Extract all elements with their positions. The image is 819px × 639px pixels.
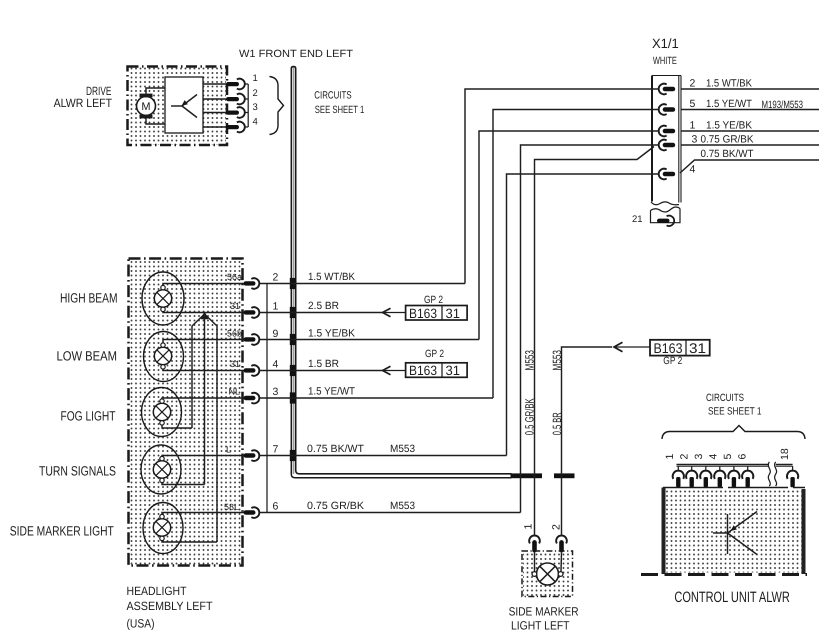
low beam bulb E2 — [154, 343, 171, 369]
svg-text:HIGH BEAM: HIGH BEAM — [60, 291, 118, 306]
high beam bulb E1 — [154, 285, 171, 311]
svg-text:2: 2 — [551, 524, 563, 530]
label pin 4 wire — [690, 148, 755, 176]
svg-text:1.5 YE/WT: 1.5 YE/WT — [706, 98, 753, 110]
headlight pin row 1 — [244, 307, 260, 318]
svg-text:1: 1 — [253, 73, 258, 84]
headlight pin row 9 — [244, 334, 260, 345]
control unit dotted box — [641, 488, 807, 575]
svg-text:1.5 YE/BK: 1.5 YE/BK — [706, 120, 752, 132]
svg-text:B163: B163 — [654, 340, 683, 356]
wire side marker top to pin 58L — [162, 513, 244, 515]
svg-text:4: 4 — [708, 454, 720, 460]
trunk junction tick row 9 — [290, 334, 297, 345]
svg-text:4: 4 — [253, 117, 258, 128]
svg-text:1.5 WT/BK: 1.5 WT/BK — [706, 78, 752, 90]
wire label row 7 — [307, 443, 415, 455]
trunk junction tick row 1 — [290, 307, 297, 318]
svg-text:3: 3 — [273, 386, 279, 398]
headlight connector strip line — [266, 284, 268, 513]
drive pin 2 wire — [203, 98, 226, 100]
ground distribution node arrow — [201, 311, 209, 319]
svg-text:4: 4 — [690, 164, 696, 176]
trunk junction tick row 2 — [290, 278, 297, 289]
headlight pin row 7 — [244, 450, 260, 461]
wire X1/1 pin5 to YE/WT vertical — [493, 110, 659, 399]
svg-text:1: 1 — [273, 301, 279, 313]
svg-text:1: 1 — [523, 524, 535, 530]
svg-text:0.75 GR/BK: 0.75 GR/BK — [307, 500, 364, 512]
motor M — [137, 94, 156, 119]
circuits see sheet 1 note (bottom) — [706, 392, 762, 417]
svg-text:ASSEMBLY LEFT: ASSEMBLY LEFT — [127, 599, 214, 613]
wire row 9 to YE/BK vertical — [260, 339, 480, 341]
drive unit dotted box — [128, 67, 228, 146]
control pin 2 — [686, 466, 697, 487]
svg-text:5: 5 — [690, 98, 696, 110]
ground point row 4: leader — [383, 370, 407, 372]
svg-text:5: 5 — [722, 454, 734, 460]
wire pin2 into lamp — [560, 553, 563, 572]
svg-text:M553: M553 — [390, 500, 415, 512]
drive ALWR left label — [54, 84, 113, 110]
wire row 7 to BK/WT vertical — [260, 455, 507, 457]
svg-text:1.5 BR: 1.5 BR — [308, 358, 339, 370]
svg-text:ALWR LEFT: ALWR LEFT — [54, 96, 113, 110]
control pin 1 — [673, 466, 684, 487]
ground point row 1: leader — [383, 312, 407, 314]
svg-text:31: 31 — [446, 363, 461, 378]
svg-text:B163: B163 — [409, 306, 437, 321]
headlight pin row 2 — [244, 278, 260, 289]
wire turn bottom to ground centre leg — [162, 483, 205, 485]
wire pin1 into lamp — [534, 553, 536, 572]
circuits see sheet 1 note (top) — [314, 90, 364, 116]
brace over control unit pins — [662, 426, 805, 440]
control pin 4 — [714, 466, 725, 487]
svg-text:1.5 WT/BK: 1.5 WT/BK — [308, 271, 355, 283]
ground point side marker: arrow — [614, 342, 623, 351]
svg-text:M553: M553 — [390, 443, 415, 455]
fog light bulb E3 — [153, 399, 170, 425]
bus break squiggle left — [768, 462, 770, 486]
svg-text:M553: M553 — [522, 350, 536, 371]
wire row 2 to WT/BK vertical — [260, 283, 466, 285]
brace to circuits note — [270, 77, 284, 135]
svg-text:SIDE MARKER: SIDE MARKER — [509, 605, 579, 619]
svg-text:CONTROL UNIT ALWR: CONTROL UNIT ALWR — [674, 589, 790, 606]
label pin 5 wire — [690, 98, 804, 111]
wire X1/1 pin4 to BK/WT vertical — [507, 174, 659, 456]
wire X1/1 pin4 right diagonal to sheet edge — [680, 160, 819, 173]
side marker bulb E6 — [532, 563, 563, 585]
ground point row 1: arrow — [383, 308, 391, 316]
trunk junction tick row 3 — [290, 392, 297, 403]
svg-text:CIRCUITS: CIRCUITS — [706, 392, 744, 404]
svg-text:LIGHT LEFT: LIGHT LEFT — [511, 619, 570, 633]
drive pin 4 — [226, 122, 248, 133]
X1/1 pin 3 — [659, 140, 675, 151]
wire motor bottom to actuator box — [146, 118, 165, 124]
wire high beam top to pin 56a — [163, 284, 244, 286]
ground branch left leg to fog — [192, 315, 204, 429]
wire low beam top to pin 56b — [163, 340, 244, 343]
svg-text:SEE SHEET 1: SEE SHEET 1 — [315, 104, 365, 116]
svg-text:2: 2 — [679, 454, 691, 460]
drive pin 4 wire — [203, 126, 226, 128]
side marker bulb E5 — [153, 514, 170, 540]
control pin 18 — [787, 466, 798, 487]
svg-text:TURN SIGNALS: TURN SIGNALS — [39, 464, 116, 479]
svg-text:56b: 56b — [227, 329, 242, 339]
trunk end thick bar segment 1 — [511, 473, 543, 478]
connector X1/1 title — [652, 36, 679, 67]
headlight pin row 4 — [244, 365, 260, 376]
headlight pin numbers — [273, 272, 279, 513]
svg-text:1: 1 — [690, 120, 696, 132]
control pin 5 — [728, 466, 739, 487]
svg-text:31: 31 — [230, 359, 240, 369]
svg-text:M193/M553: M193/M553 — [762, 99, 804, 111]
caption headlight assembly left (USA) — [127, 584, 214, 631]
side marker pin 2 — [556, 536, 567, 553]
svg-text:LOW BEAM: LOW BEAM — [57, 349, 118, 364]
ground branch centre leg to turn signal — [204, 315, 206, 485]
wire fog bottom to ground leg — [162, 425, 192, 428]
svg-text:SEE SHEET 1: SEE SHEET 1 — [708, 405, 762, 417]
wire row 6 to GR/BK vertical — [260, 512, 521, 514]
svg-text:6: 6 — [273, 501, 279, 513]
svg-text:0.5 GR/BK: 0.5 GR/BK — [522, 398, 536, 435]
svg-text:0.5 BR: 0.5 BR — [550, 412, 564, 435]
control pin 6 — [742, 466, 753, 487]
side marker pin 1 — [529, 536, 540, 553]
svg-text:0.75 BK/WT: 0.75 BK/WT — [307, 443, 365, 455]
actuator box U1 — [165, 77, 203, 133]
trunk end thick bar segment 2 — [554, 473, 575, 478]
svg-text:CIRCUITS: CIRCUITS — [314, 90, 351, 102]
svg-text:0.75 BK/WT: 0.75 BK/WT — [701, 148, 755, 160]
svg-text:X1/1: X1/1 — [652, 36, 679, 51]
svg-text:L: L — [226, 445, 231, 455]
svg-text:GP 2: GP 2 — [424, 294, 443, 306]
wire 0.5 BR up to ground branch — [562, 347, 613, 536]
svg-text:4: 4 — [273, 359, 279, 371]
drive connector strip line — [247, 84, 249, 127]
high beam lamp outline — [142, 272, 184, 325]
leveling symbol inside control unit — [713, 512, 757, 555]
svg-text:56a: 56a — [227, 272, 242, 282]
wire X1/1 pin5 right to sheet edge — [681, 109, 819, 111]
drive pin numbers 1-4 — [253, 73, 258, 128]
svg-text:HEADLIGHT: HEADLIGHT — [127, 584, 188, 598]
drive pin 3 wire — [203, 112, 226, 114]
harness trunk W (vertical double line with elbow to the right) — [291, 67, 511, 478]
headlight assembly dotted box — [129, 259, 243, 566]
X1/1 pin 4 — [659, 169, 675, 180]
svg-text:3: 3 — [253, 102, 258, 113]
svg-text:0.75 GR/BK: 0.75 GR/BK — [701, 134, 754, 146]
drive pin 2 — [226, 94, 248, 105]
wire motor top to actuator box — [146, 88, 165, 94]
svg-text:2: 2 — [273, 272, 279, 284]
svg-text:3: 3 — [693, 454, 705, 460]
svg-text:2: 2 — [253, 88, 258, 99]
svg-text:58L: 58L — [224, 502, 239, 512]
ground point side marker: leader — [614, 346, 650, 348]
svg-text:GP 2: GP 2 — [425, 348, 444, 360]
adjuster symbol inside U1 — [171, 95, 197, 118]
svg-text:1: 1 — [664, 454, 676, 460]
svg-text:(USA): (USA) — [127, 617, 155, 631]
wire label row 6 — [307, 500, 415, 512]
branch wire 0.75 BK/WT joining pin 3 node — [535, 147, 655, 537]
wire high beam bottom to pin 31 — [163, 311, 244, 314]
svg-text:NL: NL — [228, 387, 240, 397]
svg-text:2: 2 — [690, 78, 696, 90]
drive pin 1 — [226, 79, 248, 90]
wire row 3 to YE/WT vertical — [260, 397, 494, 399]
side marker light dotted box — [522, 551, 573, 597]
turn signal lamp outline — [141, 445, 181, 494]
svg-text:3: 3 — [692, 134, 698, 146]
wire side marker bottom to ground right leg — [162, 541, 217, 542]
X1/1 pin 1 — [659, 126, 675, 137]
caption side marker light left — [509, 605, 579, 633]
svg-text:W1 FRONT END LEFT: W1 FRONT END LEFT — [239, 48, 354, 60]
svg-text:6: 6 — [737, 454, 749, 460]
side marker lamp outline — [143, 503, 183, 554]
svg-text:B163: B163 — [409, 363, 437, 378]
connector X1/1 strip — [651, 76, 681, 205]
wire X1/1 pin2 right to sheet edge — [681, 88, 819, 90]
trunk junction tick row 7 — [290, 450, 297, 461]
svg-text:M553: M553 — [550, 350, 564, 371]
svg-text:WHITE: WHITE — [653, 55, 677, 67]
svg-text:31: 31 — [230, 301, 240, 311]
svg-text:31: 31 — [689, 340, 706, 356]
wire turn top to pin L — [162, 455, 244, 458]
headlight pin row 6 — [244, 507, 260, 518]
drive pin 1 wire — [203, 83, 226, 85]
svg-text:FOG LIGHT: FOG LIGHT — [61, 409, 116, 424]
control pin 3 — [700, 466, 711, 487]
wire X1/1 pin2 to WT/BK vertical — [465, 89, 659, 284]
X1/1 pin 2 — [659, 84, 675, 95]
control unit feed bus — [677, 464, 793, 466]
turn signal bulb E4 — [153, 456, 170, 482]
svg-text:21: 21 — [632, 214, 643, 225]
svg-text:7: 7 — [273, 444, 279, 456]
wire low beam bottom to pin 31b — [163, 369, 244, 370]
wire X1/1 pin3 right to sheet edge — [681, 144, 819, 146]
wire row 4 to ground arrow — [260, 370, 383, 372]
wire X1/1 pin3 to GR/BK vertical — [521, 145, 659, 513]
headlight pin row 3 — [244, 393, 260, 404]
bus break squiggle right — [775, 462, 777, 486]
ground point row 1: B163 31 box — [406, 306, 468, 321]
ground point side marker: B163 31 box — [650, 340, 710, 356]
low beam lamp outline — [144, 332, 184, 382]
wire X1/1 pin1 right to sheet edge — [681, 130, 819, 132]
svg-text:M: M — [141, 101, 150, 113]
svg-text:2.5 BR: 2.5 BR — [308, 300, 339, 312]
label pin 1 wire — [690, 120, 753, 132]
svg-text:9: 9 — [273, 328, 279, 340]
svg-text:SIDE MARKER LIGHT: SIDE MARKER LIGHT — [10, 524, 114, 539]
label pin 2 wire — [690, 78, 753, 90]
svg-text:1.5 YE/BK: 1.5 YE/BK — [308, 328, 355, 340]
trunk junction tick row 4 — [290, 365, 297, 376]
ground point row 4: B163 31 box — [406, 363, 468, 378]
svg-text:18: 18 — [779, 448, 791, 460]
drive pin 3 — [226, 107, 248, 118]
wire X1/1 pin1 to YE/BK vertical — [479, 131, 659, 340]
label pin 3 wire — [692, 134, 754, 146]
svg-text:GP 2: GP 2 — [663, 355, 682, 367]
wire row 1 to ground arrow — [260, 312, 383, 314]
fog light lamp outline — [142, 388, 182, 437]
svg-text:1.5 YE/WT: 1.5 YE/WT — [308, 386, 356, 398]
ground branch right leg to side marker — [205, 315, 217, 543]
wire fog top to pin NL — [162, 397, 244, 400]
connector X1/1 tail piece pin 21 — [651, 207, 681, 226]
ground point row 4: arrow — [383, 366, 391, 374]
X1/1 pin 5 — [659, 104, 675, 115]
svg-text:31: 31 — [446, 306, 461, 321]
